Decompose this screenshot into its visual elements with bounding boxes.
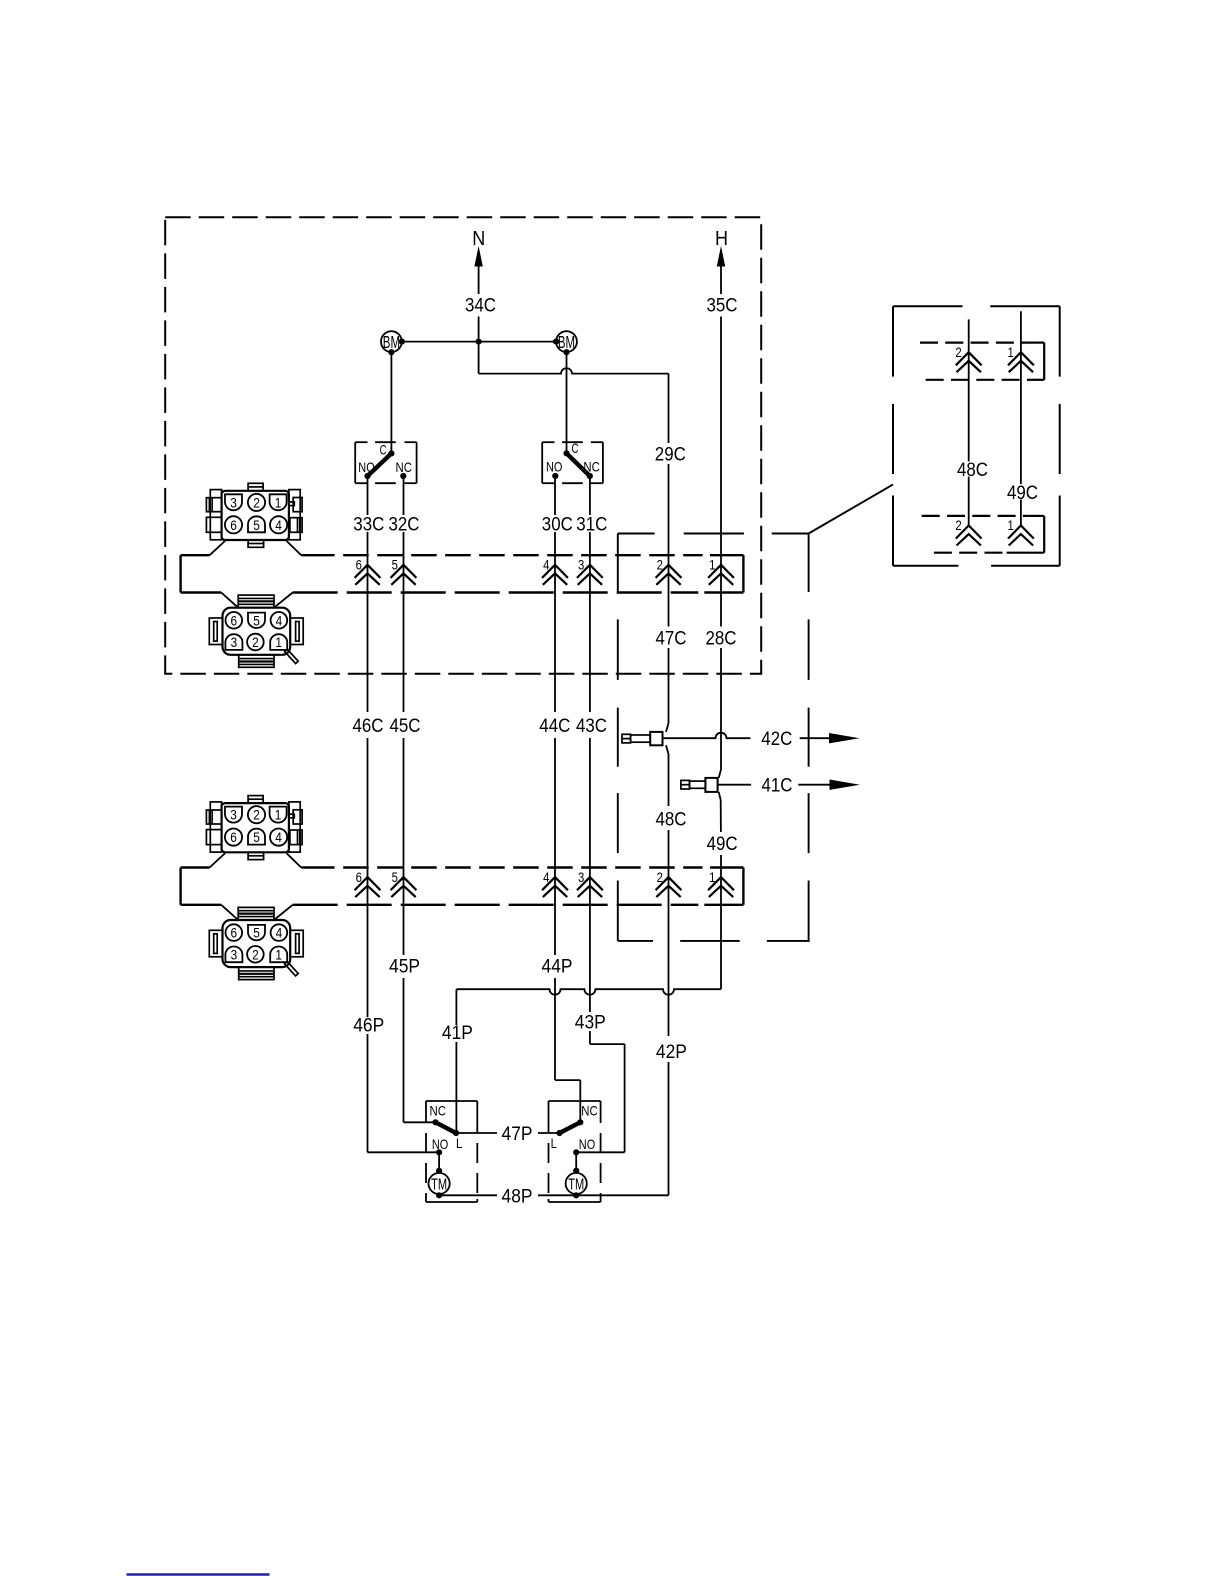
- svg-text:45C: 45C: [390, 716, 421, 737]
- terminal 42C: [622, 723, 669, 754]
- wire 48C: [656, 754, 687, 868]
- svg-text:41C: 41C: [762, 776, 793, 797]
- svg-text:TM: TM: [431, 1176, 447, 1193]
- wire 34C to 29C link: [479, 342, 669, 374]
- svg-text:L: L: [456, 1135, 462, 1151]
- svg-text:NO: NO: [579, 1136, 595, 1152]
- svg-text:N: N: [472, 228, 485, 250]
- wire 29C: [655, 374, 686, 534]
- svg-text:NO: NO: [546, 459, 562, 475]
- motor BM right: [553, 331, 577, 355]
- detail chevron pin 1 lower: [1008, 526, 1034, 546]
- svg-text:45P: 45P: [389, 957, 420, 978]
- wire 43C: [576, 555, 607, 867]
- wire 44C: [539, 555, 570, 867]
- wire 41P bus: [456, 868, 721, 1134]
- leader line to detail view: [618, 485, 893, 534]
- detail chevron pin 2 upper: [956, 352, 982, 372]
- svg-text:43C: 43C: [576, 716, 607, 737]
- svg-text:1: 1: [1008, 345, 1014, 360]
- svg-text:42P: 42P: [656, 1042, 687, 1063]
- wire 46P: [353, 868, 439, 1153]
- node H arrow: [715, 228, 728, 267]
- wire 48P: [439, 1186, 668, 1207]
- switch SW3 with timer motor TM (left): [426, 1101, 477, 1202]
- svg-text:C: C: [572, 440, 579, 456]
- switch SW2 (C/NO/NC): [542, 440, 603, 483]
- wire 45P: [389, 868, 436, 1123]
- harness boundary (outer dashed box): [165, 217, 761, 674]
- svg-text:42C: 42C: [761, 729, 792, 750]
- svg-text:2: 2: [955, 518, 961, 533]
- wire 43P: [575, 868, 625, 1153]
- detail band lower (dashed): [922, 516, 1044, 553]
- terminal 41C: [681, 770, 721, 801]
- svg-text:BM: BM: [383, 332, 400, 352]
- svg-text:NC: NC: [396, 459, 412, 475]
- svg-text:32C: 32C: [389, 515, 420, 536]
- svg-text:48C: 48C: [957, 460, 988, 481]
- svg-text:41P: 41P: [442, 1023, 473, 1044]
- svg-text:44C: 44C: [539, 716, 570, 737]
- svg-text:NO: NO: [358, 459, 374, 475]
- svg-text:TM: TM: [568, 1176, 584, 1193]
- svg-text:BM: BM: [558, 332, 575, 352]
- svg-text:NC: NC: [430, 1103, 446, 1119]
- wire 46C: [353, 555, 384, 867]
- wire 42P: [656, 868, 687, 1196]
- wire 33C: [353, 476, 384, 555]
- wire 30C: [542, 476, 573, 555]
- svg-text:L: L: [551, 1135, 557, 1151]
- wire 41C with arrow: [718, 776, 860, 797]
- motor BM left: [381, 331, 405, 355]
- decorative blue rule: [127, 1573, 270, 1576]
- wire 49C: [707, 800, 738, 868]
- svg-text:49C: 49C: [1007, 483, 1038, 504]
- svg-text:H: H: [715, 228, 728, 250]
- wire 48C detail: [957, 319, 988, 525]
- svg-text:C: C: [380, 441, 387, 457]
- wire BM right to switch: [566, 352, 568, 453]
- svg-text:48C: 48C: [656, 810, 687, 831]
- svg-text:47C: 47C: [656, 629, 687, 650]
- svg-text:29C: 29C: [655, 445, 686, 466]
- svg-text:34C: 34C: [465, 296, 496, 317]
- wire 49C detail: [1007, 311, 1038, 525]
- wire 32C: [389, 476, 420, 555]
- svg-text:46C: 46C: [353, 716, 384, 737]
- svg-text:44P: 44P: [542, 957, 573, 978]
- svg-text:NC: NC: [581, 1103, 597, 1119]
- svg-text:1: 1: [1008, 518, 1014, 533]
- wire 47C: [656, 534, 687, 724]
- connector row 1 with connectors C1/C2: [181, 483, 744, 667]
- detail view box (dashed): [893, 306, 1060, 566]
- svg-text:NO: NO: [432, 1136, 448, 1152]
- detail region bracket (long-dash): [618, 534, 810, 941]
- svg-text:30C: 30C: [542, 515, 573, 536]
- wire 45C: [390, 555, 421, 867]
- wire 31C: [576, 476, 607, 555]
- svg-text:46P: 46P: [353, 1015, 384, 1036]
- detail chevron pin 1 upper: [1008, 352, 1034, 372]
- svg-text:43P: 43P: [575, 1012, 606, 1033]
- wire 47P: [456, 1124, 560, 1145]
- svg-text:49C: 49C: [707, 834, 738, 855]
- wire BM left to switch: [390, 352, 392, 453]
- svg-text:47P: 47P: [502, 1124, 533, 1145]
- switch SW4 with timer motor TM (right): [549, 1101, 601, 1202]
- wire 42C with arrow: [663, 729, 860, 750]
- switch SW1 (C/NO/NC): [355, 441, 416, 483]
- svg-text:48P: 48P: [502, 1186, 533, 1207]
- wire 28C: [706, 629, 737, 770]
- svg-text:33C: 33C: [353, 515, 384, 536]
- node N arrow: [472, 228, 485, 294]
- wire 44P: [542, 868, 581, 1123]
- svg-text:NC: NC: [583, 459, 599, 475]
- connector row 2 with connectors C3/C4: [181, 796, 744, 980]
- svg-text:2: 2: [955, 345, 961, 360]
- svg-text:28C: 28C: [706, 629, 737, 650]
- svg-text:35C: 35C: [707, 296, 738, 317]
- wire 34C: [465, 296, 496, 342]
- detail pin numbers: [955, 345, 1014, 533]
- detail band upper (dashed): [920, 343, 1044, 380]
- wire 35C (H feed): [707, 267, 738, 627]
- wire BM link: [402, 339, 556, 345]
- svg-text:31C: 31C: [576, 515, 607, 536]
- detail chevron pin 2 lower: [956, 526, 982, 546]
